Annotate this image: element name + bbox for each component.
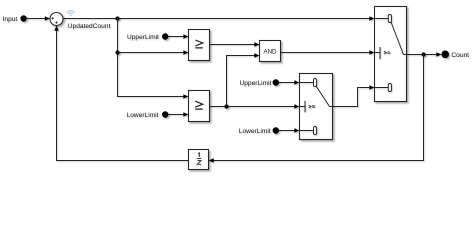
logical operator AND [260, 41, 281, 62]
inport Input [3, 16, 18, 23]
svg-text:UpperLimit: UpperLimit [240, 80, 272, 87]
wire RelOp1 to AND input 1 [210, 42, 260, 46]
unit delay 1/z [189, 150, 209, 170]
switch SW1 input 1 pill [375, 15, 392, 23]
signal logging badge [67, 11, 75, 16]
inport UpperLimit (upper) [127, 34, 159, 41]
wire Count branch to Unit Delay [209, 55, 424, 163]
inport LowerLimit (upper) [127, 112, 159, 119]
inport UpperLimit (lower) [240, 80, 272, 87]
wire UpperLimit to RelOp1 input 1 [168, 34, 188, 38]
wire UpperLimit to Switch2 input 1 [279, 80, 300, 84]
wire RelOp2 junction to AND input 2 [227, 53, 260, 106]
wire LowerLimit to Switch2 input 3 [279, 128, 300, 132]
relational operator R2 [189, 91, 210, 122]
svg-text:LowerLimit: LowerLimit [239, 128, 271, 135]
switch SW2 input 1 pill [300, 79, 317, 87]
svg-text:Count: Count [451, 52, 469, 59]
wire Switch2 to Switch1 input 3 [333, 85, 375, 106]
relational operator R1 symbol [195, 40, 203, 48]
wire UpdatedCount riser [118, 19, 189, 99]
wire Sum to Switch1 input 1 [63, 16, 375, 20]
switch SW2 input 3 pill [300, 127, 317, 135]
svg-text:LowerLimit: LowerLimit [127, 112, 159, 119]
switch SW2 criteria tick [300, 101, 315, 112]
wire Input to Sum [27, 16, 50, 20]
junction RelOp2 output [224, 104, 228, 108]
inport LowerLimit (lower) [239, 128, 271, 135]
svg-text:AND: AND [263, 48, 277, 55]
wire LowerLimit to RelOp2 input 2 [168, 112, 188, 116]
relational operator R2 symbol [195, 101, 203, 109]
svg-text:UpdatedCount: UpdatedCount [68, 23, 111, 30]
relational operator R1 [189, 30, 210, 61]
junction riser to RelOp1 [115, 50, 119, 54]
sum block Add [50, 13, 63, 26]
switch SW1 input 3 pill [375, 84, 392, 92]
outport Count [441, 51, 449, 59]
wire riser to RelOp1 input 2 [118, 50, 189, 54]
svg-text:UpperLimit: UpperLimit [127, 34, 159, 41]
junction UpdatedCount top branch [115, 16, 119, 20]
wire RelOp2 to Switch2 input 2 [210, 104, 300, 108]
switch SW1 [375, 7, 407, 102]
wire Unit Delay to Sum input 2 [54, 26, 188, 161]
wire AND to Switch1 input 2 [281, 50, 375, 54]
svg-text:Input: Input [3, 16, 18, 23]
switch SW1 selector diagonal [391, 23, 406, 55]
switch SW2 [300, 74, 333, 140]
switch SW2 selector diagonal [316, 87, 332, 107]
label UpdatedCount [68, 23, 111, 30]
junction Count branch [421, 52, 425, 56]
switch SW1 criteria tick [375, 47, 391, 59]
wire Switch1 to Count [407, 52, 442, 56]
